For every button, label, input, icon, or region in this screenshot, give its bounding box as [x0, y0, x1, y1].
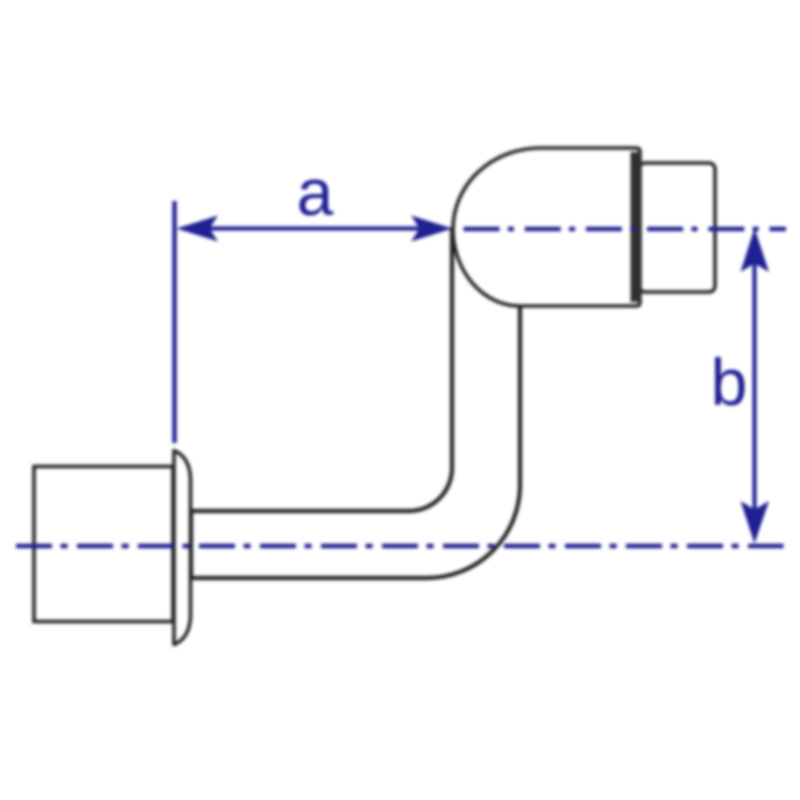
arrowhead a right [411, 216, 453, 242]
dimension line a [182, 226, 446, 230]
bent tube (horizontal run, 90deg bend, vertical run) [191, 229, 520, 578]
arrowhead b down [741, 501, 770, 544]
svg-text:b: b [711, 345, 748, 419]
flange disc (edge view) [174, 451, 191, 645]
upper centerline (dash-dot) [464, 227, 787, 231]
dimension line b [752, 238, 756, 538]
joint bar between dome and spigot [631, 152, 642, 302]
arrowhead a left [177, 216, 219, 242]
elbow dome body [453, 148, 640, 306]
lower centerline (dash-dot) [16, 544, 784, 548]
extension line left [172, 201, 176, 443]
socket cylinder body (lower left) [34, 467, 173, 622]
svg-text:a: a [297, 155, 334, 229]
spigot cylinder (upper right) [639, 163, 715, 292]
arrowhead b up [741, 228, 770, 272]
